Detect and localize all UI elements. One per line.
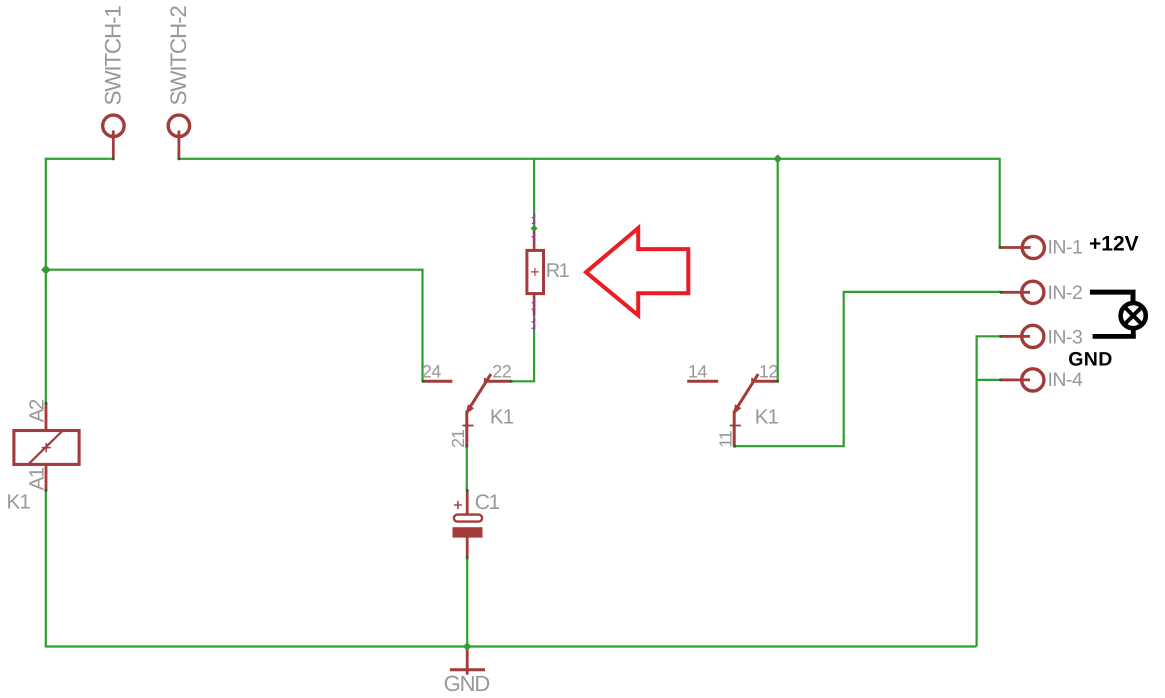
pin circle IN-3 bbox=[1022, 325, 1044, 347]
R1 tiny magenta text below bbox=[532, 299, 536, 330]
svg-text:24: 24 bbox=[422, 361, 442, 381]
wire: branch to contact pin 24 bbox=[46, 270, 423, 382]
svg-text:C1: C1 bbox=[475, 491, 500, 514]
relay contact 2: pin 14 stub bbox=[687, 380, 718, 383]
svg-text:14: 14 bbox=[688, 361, 708, 381]
relay coil diagonal bbox=[29, 431, 62, 463]
wire: IN-3 / IN-4 branch tree bbox=[977, 336, 1001, 646]
svg-text:IN-1: IN-1 bbox=[1048, 237, 1083, 259]
svg-text:IN-2: IN-2 bbox=[1048, 282, 1083, 304]
black wire lamp to IN-3 bbox=[1093, 329, 1136, 339]
capacitor C1 pin bottom bbox=[466, 538, 469, 558]
node: junction at left rail / pin24 branch bbox=[41, 265, 51, 275]
joint dot C1 top bbox=[466, 489, 469, 492]
joint dot IN-2 stub bbox=[1000, 291, 1003, 294]
pin IN-1 stub bbox=[1000, 246, 1031, 249]
svg-text:IN-4: IN-4 bbox=[1048, 369, 1083, 391]
ground symbol pin bbox=[466, 647, 469, 675]
R1 tiny magenta text above bbox=[532, 214, 536, 243]
svg-text:K1: K1 bbox=[490, 405, 514, 428]
lamp symbol X bbox=[1124, 307, 1142, 325]
joint dot IN-3 stub bbox=[999, 335, 1002, 338]
relay contact 1: mover blade bbox=[467, 374, 491, 412]
red annotation arrow bbox=[586, 228, 688, 315]
pin SWITCH-2 stub bbox=[177, 131, 180, 159]
svg-text:K1: K1 bbox=[755, 405, 779, 428]
joint dot pin21 bbox=[466, 445, 469, 448]
wire: left vertical rail upper (green) bbox=[45, 158, 47, 404]
wire: R1 top branch bbox=[533, 159, 535, 229]
relay contact 2: blade arrowhead bbox=[733, 404, 742, 414]
pin circle IN-2 bbox=[1022, 281, 1044, 303]
joint dot C1 bottom bbox=[466, 557, 469, 560]
joint dot coil A2 bbox=[45, 402, 48, 405]
relay contact 1: pin 21 stub bbox=[465, 411, 468, 446]
capacitor C1 plus mark bbox=[454, 501, 462, 509]
wire: top rail segment to SWITCH-1 bbox=[45, 158, 113, 160]
resistor R1 body bbox=[527, 250, 544, 293]
svg-text:21: 21 bbox=[448, 430, 468, 448]
wire: R1 bottom to contact pin 22 bbox=[511, 316, 534, 382]
wire: left vertical rail lower + bottom rail bbox=[46, 490, 977, 646]
relay coil origin cross bbox=[42, 443, 51, 452]
svg-text:GND: GND bbox=[1068, 349, 1113, 371]
resistor R1 pin top bbox=[533, 229, 536, 251]
svg-text:K1: K1 bbox=[7, 491, 31, 514]
wire: C1 to bottom rail bbox=[466, 558, 468, 647]
joint dot pin24 bbox=[422, 380, 425, 383]
relay contact 1: pivot tick bbox=[484, 378, 486, 385]
pin circle SWITCH-1 bbox=[103, 115, 124, 136]
capacitor C1 top plate bbox=[454, 515, 482, 522]
joint dot coil A1 bbox=[45, 489, 48, 492]
resistor R1 origin cross bbox=[531, 268, 539, 276]
relay contact 1: blade arrowhead bbox=[466, 404, 475, 414]
svg-text:A1: A1 bbox=[25, 467, 48, 490]
svg-text:GND: GND bbox=[444, 671, 490, 696]
relay contact 2: mover blade bbox=[734, 374, 758, 412]
joint dot IN-4 stub bbox=[999, 379, 1002, 382]
svg-text:22: 22 bbox=[492, 361, 512, 381]
pin circle IN-1 bbox=[1022, 236, 1044, 258]
svg-text:IN-3: IN-3 bbox=[1048, 327, 1083, 349]
pin IN-3 stub bbox=[1000, 335, 1030, 338]
svg-text:SWITCH-2: SWITCH-2 bbox=[166, 6, 191, 106]
relay coil pin A2 bbox=[45, 403, 48, 430]
joint dot pin22 bbox=[510, 380, 513, 383]
relay contact 2: pin 12 stub bbox=[753, 380, 778, 383]
resistor R1 pin bottom bbox=[533, 294, 536, 316]
capacitor C1 pin top bbox=[466, 490, 469, 521]
pin IN-4 stub bbox=[1000, 378, 1030, 381]
svg-text:SWITCH-1: SWITCH-1 bbox=[100, 6, 125, 106]
relay contact 2: pin 11 tick bbox=[730, 425, 741, 427]
joint dot SWITCH-1 pin bbox=[112, 158, 115, 161]
relay contact 1: pin 22 stub bbox=[486, 380, 511, 383]
pin IN-2 stub bbox=[1001, 291, 1031, 294]
wire: top rail segment from SWITCH-2 to IN-1 corner bbox=[179, 159, 1000, 248]
relay contact 1: pin 24 stub bbox=[423, 380, 452, 383]
joint dot pin12 bbox=[776, 380, 779, 383]
ground symbol bar bbox=[450, 668, 485, 671]
wire: contact pin 11 to IN-2 bbox=[735, 292, 1001, 446]
node: junction top rail / pin12 branch bbox=[773, 154, 782, 163]
lamp symbol circle bbox=[1121, 303, 1146, 328]
svg-text:R1: R1 bbox=[546, 260, 570, 282]
node: junction on R1 branch bbox=[531, 225, 538, 232]
svg-text:+12V: +12V bbox=[1089, 232, 1139, 255]
relay coil pin A1 bbox=[45, 465, 48, 491]
relay coil K1 body bbox=[14, 431, 79, 465]
wire: branch to contact pin 12 bbox=[777, 159, 779, 381]
svg-text:11: 11 bbox=[715, 431, 735, 448]
capacitor C1 bottom plate bbox=[453, 527, 483, 537]
black wire IN-2 to lamp bbox=[1090, 290, 1133, 303]
relay contact 2: pivot tick bbox=[751, 378, 753, 385]
pin circle IN-4 bbox=[1022, 369, 1044, 391]
relay contact 2: pin 11 stub bbox=[733, 411, 736, 446]
joint dot SWITCH-2 pin bbox=[178, 158, 181, 161]
svg-text:12: 12 bbox=[759, 361, 779, 381]
relay contact 1: pin 21 tick bbox=[462, 425, 473, 427]
node: junction bottom rail / GND bbox=[463, 642, 472, 651]
joint dot IN-1 stub bbox=[999, 246, 1002, 249]
wire: contact1 pin 21 to C1 bbox=[466, 446, 468, 490]
joint dot pin11 bbox=[733, 445, 736, 448]
pin SWITCH-1 stub bbox=[112, 131, 115, 159]
pin circle SWITCH-2 bbox=[168, 115, 189, 136]
